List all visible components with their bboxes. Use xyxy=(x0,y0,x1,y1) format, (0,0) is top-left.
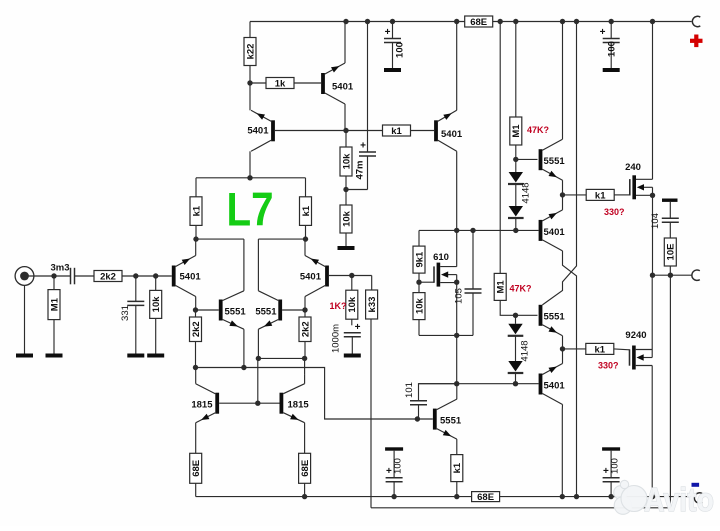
svg-text:1815: 1815 xyxy=(191,400,213,411)
svg-text:331: 331 xyxy=(120,305,131,321)
svg-text:2k2: 2k2 xyxy=(191,321,202,337)
svg-text:330?: 330? xyxy=(604,207,625,217)
svg-text:5551: 5551 xyxy=(225,307,247,318)
svg-text:68E: 68E xyxy=(470,17,487,28)
svg-text:+: + xyxy=(385,27,391,38)
svg-text:M1: M1 xyxy=(49,297,60,311)
svg-text:10k: 10k xyxy=(341,153,352,170)
svg-text:2k2: 2k2 xyxy=(300,321,311,337)
svg-text:5551: 5551 xyxy=(440,416,462,427)
svg-text:240: 240 xyxy=(625,162,641,173)
svg-text:47m: 47m xyxy=(355,160,366,179)
svg-text:101: 101 xyxy=(404,382,415,398)
svg-text:9240: 9240 xyxy=(625,330,646,341)
svg-text:68E: 68E xyxy=(300,460,311,477)
svg-text:1K?: 1K? xyxy=(330,301,347,311)
svg-text:104: 104 xyxy=(650,213,661,229)
svg-text:k22: k22 xyxy=(245,44,256,60)
svg-text:M1: M1 xyxy=(496,280,507,294)
svg-text:L7: L7 xyxy=(227,183,274,236)
svg-text:+: + xyxy=(600,27,606,38)
svg-text:1815: 1815 xyxy=(288,400,310,411)
svg-text:47K?: 47K? xyxy=(510,284,532,294)
svg-text:1000m: 1000m xyxy=(331,324,342,353)
svg-text:4148: 4148 xyxy=(520,340,531,361)
svg-text:330?: 330? xyxy=(598,361,619,371)
svg-text:M1: M1 xyxy=(511,124,522,138)
svg-text:k1: k1 xyxy=(452,462,463,473)
svg-text:5401: 5401 xyxy=(441,129,463,140)
svg-text:2k2: 2k2 xyxy=(100,272,116,283)
svg-text:5401: 5401 xyxy=(544,381,566,392)
svg-text:+: + xyxy=(603,466,609,477)
svg-text:5551: 5551 xyxy=(544,156,566,167)
svg-text:1k: 1k xyxy=(275,79,286,90)
svg-text:k1: k1 xyxy=(391,126,402,137)
svg-text:4148: 4148 xyxy=(521,182,532,203)
svg-text:100: 100 xyxy=(393,458,404,474)
svg-text:10k: 10k xyxy=(414,297,425,314)
svg-text:+: + xyxy=(386,466,392,477)
svg-text:10k: 10k xyxy=(347,296,358,313)
svg-text:5401: 5401 xyxy=(544,227,566,238)
svg-text:68E: 68E xyxy=(477,492,494,503)
svg-text:100: 100 xyxy=(607,41,618,57)
svg-text:k1: k1 xyxy=(301,205,312,216)
svg-text:68E: 68E xyxy=(191,460,202,477)
svg-text:5551: 5551 xyxy=(255,307,277,318)
svg-text:k1: k1 xyxy=(595,344,606,355)
svg-text:k1: k1 xyxy=(595,190,606,201)
svg-text:k33: k33 xyxy=(367,297,378,313)
svg-text:10E: 10E xyxy=(666,244,677,261)
svg-text:100: 100 xyxy=(395,42,406,58)
svg-text:+: + xyxy=(355,322,361,333)
svg-text:610: 610 xyxy=(433,252,449,263)
svg-text:10k: 10k xyxy=(151,296,162,313)
svg-text:5401: 5401 xyxy=(332,82,354,93)
svg-text:3m3: 3m3 xyxy=(50,263,69,274)
svg-text:105: 105 xyxy=(454,288,465,304)
svg-text:10k: 10k xyxy=(341,210,352,227)
svg-text:47K?: 47K? xyxy=(527,125,549,135)
svg-text:5401: 5401 xyxy=(180,272,202,283)
svg-text:k1: k1 xyxy=(191,205,202,216)
svg-text:5551: 5551 xyxy=(544,312,566,323)
svg-text:100: 100 xyxy=(610,458,621,474)
svg-text:5401: 5401 xyxy=(247,126,269,137)
svg-text:Avito: Avito xyxy=(644,481,714,518)
svg-text:+: + xyxy=(360,141,366,152)
svg-text:9k1: 9k1 xyxy=(414,251,425,268)
svg-text:5401: 5401 xyxy=(300,272,322,283)
